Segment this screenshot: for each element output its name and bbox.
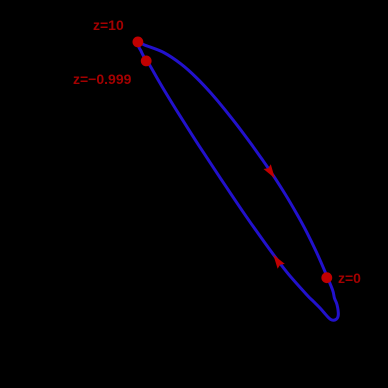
curve: closed loop trajectory xyxy=(137,41,338,321)
dot z=0 xyxy=(321,272,332,283)
arrow on left branch (pointing up-left) xyxy=(273,255,285,269)
label z=0 xyxy=(338,271,361,285)
label z=10 xyxy=(93,18,124,32)
dot z=10 xyxy=(133,37,144,48)
label z=-0.999 xyxy=(73,72,131,86)
arrow on right branch (pointing down-right) xyxy=(264,164,275,178)
dot z=-0.999 xyxy=(141,56,152,67)
